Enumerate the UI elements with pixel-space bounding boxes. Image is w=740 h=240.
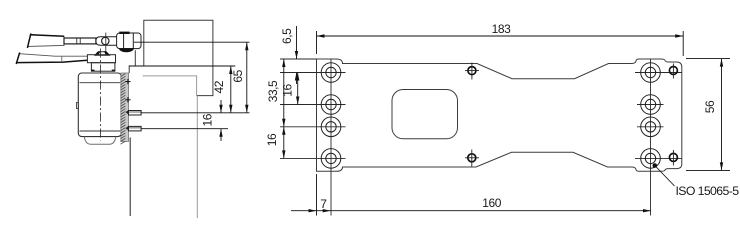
dim 56 extension top (686, 58, 730, 60)
neck foot left (filled) (91, 70, 94, 72)
shoe flange bottom crescent (filled) (119, 48, 134, 52)
neck rect (91, 63, 115, 71)
arm wide segment top edge (bold) (30, 35, 64, 37)
hole A3 crosshair (280, 126, 346, 128)
lower arm bottom edge (bold) (17, 60, 88, 62)
fixing pin lower cone (125, 126, 128, 131)
valve notch (76, 103, 78, 109)
fixing pin upper cone (125, 110, 128, 115)
dome wedge left (filled) (94, 51, 100, 55)
collar (87, 55, 115, 71)
left hole column crosshairs (280, 59, 346, 216)
hole B3 (641, 117, 661, 137)
fixing pin lower (129, 126, 142, 130)
bottom cap (84, 137, 116, 145)
door edge line (129, 138, 131, 217)
neck foot right (filled) (112, 70, 115, 72)
hole A4 (321, 149, 341, 169)
hole A4 crosshair (280, 157, 346, 159)
body internal line bottom (80, 130, 121, 132)
dome outline (95, 52, 109, 55)
frame stop face (134, 50, 136, 66)
hole A2 crosshair (280, 104, 346, 106)
frame profile (129, 20, 213, 218)
shoe fold line (123, 33, 125, 52)
shoe flange top (filled) (119, 32, 129, 34)
svg-text:65: 65 (231, 69, 245, 82)
hole B1 crosshair (635, 72, 682, 74)
dim 6,5 line (296, 26, 298, 59)
shoe body (117, 33, 141, 49)
dim 16 line (220, 100, 222, 113)
hole A3 (321, 117, 341, 137)
eye centerline (105, 33, 107, 56)
dimension texts right view (265, 22, 739, 211)
backplate hatch strip (121, 73, 129, 142)
dome wedge right (filled) (104, 51, 110, 55)
hole B2 (641, 95, 661, 115)
dim 42 line (230, 66, 232, 113)
lower arm (16, 53, 87, 65)
fixing pin upper (129, 111, 142, 116)
hole column vertical centerline right (650, 59, 652, 215)
upper arm (27, 33, 116, 56)
body centerline (dash-dot) (100, 49, 102, 141)
plate screw cross upper (125, 79, 130, 84)
svg-text:6,5: 6,5 (280, 28, 294, 44)
left holes (321, 63, 341, 169)
plate top edge extension (280, 58, 317, 60)
dim 16 lower line (283, 127, 285, 159)
ext arm axis (134, 41, 250, 43)
hole B4 crosshair (635, 157, 682, 159)
arm shoe bracket (117, 32, 141, 53)
backplate edge hatching (121, 74, 126, 145)
screw S2 bottom middle (468, 154, 476, 162)
dim 56 extension bottom (686, 169, 730, 171)
hole A1 crosshair (280, 72, 346, 74)
dim 160 / 7 extension lines (316, 174, 318, 216)
screw S3 top right (669, 67, 677, 75)
plate outline (317, 59, 682, 171)
arm rod (64, 38, 96, 44)
leader ISO 15065-5 (653, 163, 658, 168)
wall reveal line below frame (light) (196, 96, 198, 218)
svg-text:183: 183 (492, 22, 511, 36)
screw S2 crosshair (465, 157, 479, 159)
dim 16 upper line (297, 73, 299, 105)
svg-text:56: 56 (703, 100, 717, 113)
right holes (641, 63, 661, 169)
dimension texts left view (201, 69, 246, 126)
screw S4 crosshair (672, 150, 674, 166)
right hole column crosshairs (635, 59, 682, 215)
rod joint line (76, 38, 78, 44)
svg-text:160: 160 (482, 196, 501, 210)
screw S1 top middle (468, 67, 476, 75)
ext pin upper (141, 112, 249, 114)
dim 183 extension left (316, 31, 318, 54)
arm break cut (bold) (27, 33, 31, 48)
hole A1 (321, 63, 341, 83)
hole B4 (641, 149, 661, 169)
hole B2 crosshair (637, 104, 664, 106)
dim 33,5 line (283, 59, 285, 127)
arm eye capsule (96, 37, 117, 46)
lower arm top edge (thin) (19, 54, 87, 57)
arm wide segment (28, 35, 64, 47)
screw S1 crosshair (465, 70, 479, 72)
svg-text:16: 16 (265, 133, 279, 146)
dim 160 line (291, 210, 651, 212)
svg-text:33,5: 33,5 (266, 80, 280, 102)
svg-text:7: 7 (320, 197, 327, 211)
svg-text:ISO 15065-5: ISO 15065-5 (676, 184, 740, 198)
rounded rectangular cutout (392, 90, 458, 139)
hole column vertical centerline left (330, 59, 332, 215)
shoe inner line (132, 33, 134, 49)
frame step (light) (143, 76, 197, 96)
arm eye pin circle (102, 37, 109, 44)
body internal line top (80, 82, 121, 84)
body cylinder (78, 73, 121, 137)
hole B3 crosshair (637, 126, 664, 128)
collar rect (87, 55, 115, 63)
hole A2 (321, 95, 341, 115)
dim 65 line (246, 42, 248, 113)
screw S3 crosshair (672, 64, 674, 79)
svg-text:16: 16 (201, 113, 215, 126)
lower arm joint (61, 56, 63, 62)
screw S4 bottom right (669, 153, 677, 161)
ext pin lower (141, 128, 228, 130)
lower arm break cut (bold) (16, 53, 20, 65)
dim 56 line (721, 59, 723, 171)
closer body (76, 73, 121, 144)
svg-text:16: 16 (281, 84, 295, 97)
mounting backplate (hatched) (121, 73, 142, 144)
pinion dome (94, 51, 110, 55)
plate screw cross lower (125, 97, 130, 102)
svg-text:42: 42 (212, 80, 226, 93)
small fixing screw holes (bold) (468, 67, 678, 162)
ext frame bottom (129, 65, 235, 67)
dim 183 line (317, 35, 684, 37)
dim 183 extension right (682, 31, 684, 56)
jamb face below frame (128, 65, 130, 73)
hole B1 (641, 63, 661, 83)
